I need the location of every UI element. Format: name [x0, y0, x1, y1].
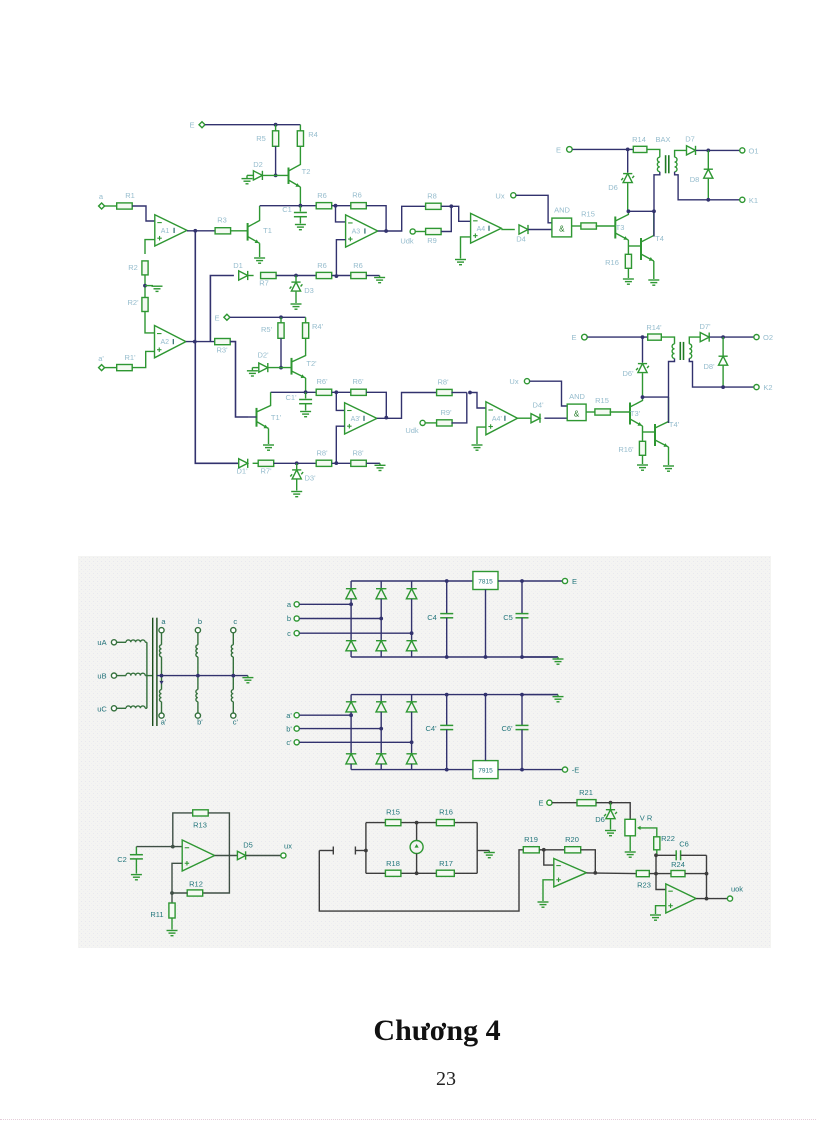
resistor R14' [648, 334, 662, 340]
resistor R6 (c) [316, 272, 332, 278]
svg-text:&: & [559, 225, 565, 234]
op-amp A7 [666, 884, 696, 913]
rectifier diode column 2 ' (top) [380, 695, 382, 702]
wire R9 up to R8 node [441, 206, 451, 231]
resistor R3' [215, 339, 231, 345]
rectifier diode column 1 (top) [350, 581, 352, 588]
wire R15 to T3 base [596, 225, 616, 227]
zener diode D3 [295, 276, 297, 282]
resistor R7' [258, 460, 274, 466]
terminal E' (channel 2) [224, 314, 230, 320]
wire R4' to T2' collector [305, 338, 307, 345]
secondary winding a lower coil [161, 676, 163, 690]
rectifier diode column 2 ' (bottom) [376, 754, 386, 764]
ground at T1' emitter [263, 445, 274, 450]
ground at divider tap [145, 285, 153, 287]
ground at T4' emitter [663, 466, 674, 471]
transistor T3 [614, 217, 616, 239]
resistor R16 [627, 246, 629, 254]
svg-text:D4: D4 [516, 235, 526, 244]
rectifier bridge ' bottom rail [351, 769, 473, 771]
op-amp A3' [345, 403, 377, 434]
svg-text:C1': C1' [285, 393, 297, 402]
svg-text:R9: R9 [427, 236, 437, 245]
terminal K1 [740, 197, 745, 202]
svg-text:E: E [571, 333, 576, 342]
svg-text:A4: A4 [477, 226, 486, 233]
wire R9' up to node [451, 393, 466, 423]
node D8' bottom [721, 385, 725, 389]
resistor R6 (d) [351, 272, 367, 278]
ground at C1 [295, 225, 306, 230]
svg-text:7915: 7915 [478, 768, 493, 775]
wire 7815 output to E [498, 580, 562, 582]
secondary winding a terminal bottom [159, 713, 164, 718]
svg-text:R13: R13 [193, 821, 207, 830]
wire AND to R15 [572, 225, 582, 227]
svg-text:b': b' [197, 718, 203, 727]
terminal ux [281, 853, 286, 858]
op-amp A1 [155, 215, 187, 246]
rectifier diode column 3 (top) [411, 581, 413, 588]
node D8 bottom [706, 198, 710, 202]
svg-text:b': b' [286, 724, 292, 733]
wire A4 non-inverting to ground [461, 237, 471, 259]
resistor R3 [215, 228, 231, 234]
wire R6'a [332, 391, 351, 393]
AND gate (channel 1) [552, 218, 572, 237]
svg-text:C6': C6' [501, 724, 513, 733]
svg-text:&: & [574, 410, 580, 419]
node A3' output [384, 416, 388, 420]
svg-text:C6: C6 [679, 840, 689, 849]
ground at R16' [637, 465, 648, 470]
svg-text:R6: R6 [352, 191, 362, 200]
wire D4 to AND box [528, 229, 552, 231]
resistor R9 [415, 231, 426, 233]
node T2' emitter / C1' [304, 390, 308, 394]
dotted footer rule [0, 1119, 816, 1120]
resistor R12 loop [187, 890, 203, 896]
wire D6 node to transformer primary [628, 210, 654, 212]
svg-text:D1': D1' [236, 467, 248, 476]
diode D1' [239, 459, 248, 468]
ground at offset zener [605, 831, 616, 836]
svg-text:R14': R14' [646, 323, 662, 332]
wire R3 to T1 base [231, 230, 248, 232]
svg-text:R6: R6 [317, 191, 327, 200]
svg-text:T4: T4 [655, 234, 664, 243]
capacitor C6' [521, 695, 523, 726]
svg-text:D5: D5 [243, 841, 253, 850]
secondary winding c lower coil [232, 676, 234, 690]
wire R6d to ground [366, 275, 379, 277]
svg-text:R8': R8' [316, 449, 328, 458]
ground at C2 [131, 875, 142, 880]
wire A2 output to R3' [186, 341, 215, 343]
svg-text:A3: A3 [352, 229, 361, 236]
secondary winding c terminal bottom [231, 713, 236, 718]
node A3 output [384, 229, 388, 233]
svg-text:D3: D3 [304, 286, 314, 295]
feedback loop R13 [173, 813, 193, 847]
secondary winding c upper coil [232, 633, 234, 645]
svg-text:R6: R6 [317, 261, 327, 270]
node rail/R5' [279, 315, 283, 319]
svg-text:O2: O2 [763, 333, 773, 342]
wire R21 to VR [596, 803, 630, 820]
node A1 output [193, 229, 197, 233]
capacitor C6 [656, 854, 676, 856]
svg-text:R2: R2 [128, 263, 138, 272]
transistor T1 [247, 223, 249, 241]
wire A1 non-inverting input to R2 [145, 240, 155, 254]
pulse transformer BAX primary lead [647, 149, 660, 157]
wire 7815 ground pin [485, 590, 487, 658]
node D8' top [721, 335, 725, 339]
diode D1 [239, 271, 248, 280]
secondary winding b upper coil [197, 633, 199, 645]
svg-text:-E: -E [572, 766, 580, 775]
wire A3 non-inverting input to bottom rail [336, 240, 345, 276]
svg-text:E: E [538, 799, 543, 808]
terminal Ux [511, 193, 516, 198]
wire D7' to O2 [710, 336, 754, 338]
op-amp A5 (ux amplifier) [182, 840, 214, 871]
terminal E (supply +) [562, 578, 567, 583]
svg-text:C2: C2 [117, 855, 127, 864]
node R8'/R9' [468, 391, 472, 395]
bridge input terminal a [294, 602, 299, 607]
node A3' non-inverting feed [334, 461, 338, 465]
resistor R8' (d) [351, 460, 367, 466]
rectifier bridge bottom rail [351, 656, 558, 658]
svg-text:D1: D1 [233, 261, 243, 270]
VR wiper to R22 [639, 828, 657, 837]
resistor R5 [275, 125, 277, 131]
node R2/R2prime divider tap [144, 275, 146, 298]
svg-text:b: b [198, 617, 202, 626]
terminal a [99, 203, 105, 209]
node bridge bottom centre [415, 871, 419, 875]
secondary winding b terminal top [195, 628, 200, 633]
svg-text:AND: AND [569, 392, 585, 401]
svg-text:R8': R8' [352, 449, 364, 458]
resistor R2' [142, 298, 148, 312]
transistor T4' [654, 424, 656, 446]
wire R19 to A6 inverting input [539, 849, 544, 851]
terminal E (channel 1 top rail) [199, 122, 205, 128]
wire AND' to R15' [586, 411, 596, 413]
ground at D2 anode [246, 175, 248, 178]
svg-text:R6': R6' [352, 377, 364, 386]
node R22/C6 [654, 853, 658, 857]
svg-text:R1: R1 [125, 191, 135, 200]
ground at R16 [623, 279, 634, 284]
zener diode D6 (offset) [610, 803, 612, 809]
diode D4' [518, 417, 532, 419]
wire E top rail [205, 124, 300, 126]
svg-text:R6: R6 [353, 261, 363, 270]
svg-text:Udk: Udk [405, 426, 419, 435]
svg-text:R18: R18 [386, 859, 400, 868]
node D2'/R5'/T2' base [279, 366, 283, 370]
resistor R6' (a) [316, 389, 332, 395]
wire A3 inverting input [336, 206, 346, 222]
wire input b [299, 618, 381, 620]
primary coil uC [117, 707, 126, 709]
wire D6' node to transformer primary [643, 396, 669, 398]
wire A6 output to R23 [587, 872, 637, 875]
svg-text:E: E [189, 121, 194, 130]
resistor R9' [425, 422, 437, 424]
svg-text:uA: uA [97, 638, 106, 647]
svg-text:T2': T2' [306, 359, 317, 368]
svg-text:R19: R19 [524, 835, 538, 844]
wire Ux' to AND gate [530, 381, 568, 406]
wire E' to R14' [587, 336, 647, 338]
svg-text:7815: 7815 [478, 579, 493, 586]
terminal uok [727, 896, 732, 901]
diode D7' [700, 333, 709, 342]
rectifier diode column 1 ' (bottom) [346, 754, 356, 764]
svg-text:E: E [214, 313, 219, 322]
transistor T4 [640, 238, 642, 260]
svg-text:uok: uok [731, 885, 743, 894]
wire Ux to AND gate [516, 195, 552, 223]
resistor R14 [633, 146, 647, 152]
op-amp A3 [346, 215, 378, 247]
centre-tap neutral wire [157, 675, 248, 677]
transistor T1' [256, 408, 258, 427]
wire A1 out to R3 [187, 230, 216, 232]
svg-text:Ux: Ux [495, 191, 504, 200]
resistor R1' [105, 367, 117, 369]
resistor R22 [654, 837, 660, 850]
resistor R15 (bridge) [385, 820, 401, 826]
wire node to A4 inverting input [451, 206, 470, 221]
wire R8' to node [451, 392, 466, 394]
node T2 emitter / C1 [299, 204, 303, 208]
rectifier diode column 3 (bottom) [406, 641, 416, 651]
terminal uB [111, 673, 116, 678]
wire R1 to A1 inverting input [132, 206, 155, 221]
resistor R23 [636, 871, 649, 877]
svg-text:R3': R3' [216, 346, 228, 355]
shaded background of power-supply block [78, 556, 771, 948]
svg-text:C1: C1 [282, 205, 292, 214]
ground lower bridge positive rail [522, 694, 558, 696]
terminal E (driver channel 1) [567, 147, 573, 153]
resistor R2 [142, 261, 148, 275]
bridge input terminal b [294, 616, 299, 621]
ground at T1 emitter [254, 258, 265, 263]
ground at A6 non-inverting input [543, 880, 554, 901]
svg-text:D3': D3' [304, 474, 316, 483]
wire R7' to D3' node [274, 462, 317, 464]
ground at A7 non-inverting input [656, 906, 666, 914]
transistor T2' [268, 367, 292, 369]
svg-text:D6': D6' [622, 369, 634, 378]
node D2/R5/T2 base [274, 174, 278, 178]
resistor R17 (bridge) [436, 870, 454, 876]
svg-text:R15: R15 [595, 396, 609, 405]
resistor R8 [426, 203, 442, 209]
secondary winding a upper coil [161, 633, 163, 645]
svg-text:R11: R11 [150, 910, 163, 919]
svg-text:c: c [233, 617, 237, 626]
ground channel1 bottom rail [374, 278, 385, 283]
node secondary a centre tap [160, 674, 164, 678]
primary coil uA [117, 641, 126, 643]
secondary winding c terminal top [231, 628, 236, 633]
capacitor C1 [299, 206, 301, 212]
wire R6'b to A3' output corner [366, 392, 386, 417]
ground at bridge right rail [477, 850, 489, 852]
terminal K2 [754, 385, 759, 390]
svg-text:E: E [556, 145, 561, 154]
svg-text:R7: R7 [259, 279, 269, 288]
regulator 7915 [473, 761, 498, 779]
wire A4' non-inverting to ground [477, 427, 486, 444]
ground at D2' anode [251, 368, 253, 371]
node D3' [295, 461, 299, 465]
wire C2 to inverting input [136, 846, 182, 848]
resistor R11 [171, 893, 173, 903]
svg-text:a': a' [98, 354, 104, 363]
wire A3' inverting input [336, 392, 344, 410]
node T3' collector / D6' [641, 395, 645, 399]
svg-text:T2: T2 [302, 167, 311, 176]
secondary top lead to D7' [689, 337, 700, 344]
resistor R8' [437, 389, 453, 395]
rectifier diode column 2 (top) [380, 581, 382, 588]
secondary top lead to D7 [675, 150, 687, 157]
rectifier diode column 2 (bottom) [376, 641, 386, 651]
wire input b' [299, 728, 381, 730]
op-amp A6 [554, 859, 587, 887]
svg-text:K2: K2 [763, 383, 772, 392]
svg-text:R16: R16 [605, 258, 619, 267]
diode D5 at A5 output [215, 855, 237, 857]
svg-text:R8: R8 [427, 192, 437, 201]
svg-text:D4': D4' [532, 401, 544, 410]
svg-text:K1: K1 [749, 196, 758, 205]
svg-text:C5: C5 [503, 613, 513, 622]
terminal Udk' [420, 420, 425, 425]
svg-text:T1: T1 [263, 226, 272, 235]
node R8/R9 junction [449, 204, 453, 208]
wire D1' to R7' [253, 462, 259, 464]
svg-text:O1: O1 [748, 146, 758, 155]
resistor R6' (b) [351, 389, 367, 395]
svg-text:c: c [287, 629, 291, 638]
diode D2 [247, 174, 253, 176]
transistor T3' [629, 403, 631, 425]
svg-text:R3: R3 [217, 216, 227, 225]
svg-text:R5: R5 [256, 134, 266, 143]
svg-text:R16: R16 [439, 808, 453, 817]
svg-text:R12: R12 [189, 880, 203, 889]
wire A3 output to R8 row [378, 206, 427, 231]
svg-text:D7: D7 [685, 135, 695, 144]
svg-text:A3': A3' [351, 416, 361, 423]
bridge input terminal c [294, 631, 299, 636]
secondary winding a terminal top [159, 628, 164, 633]
resistor R6 (b) [351, 203, 367, 209]
ground at D3' [291, 492, 302, 497]
pulse transformer primary lead (channel 2) [662, 337, 675, 344]
wire R15' to T3' base [610, 411, 630, 413]
wire to A7 inverting input [656, 874, 666, 890]
node D8 top [706, 149, 710, 153]
terminal E' (driver channel 2) [582, 334, 588, 340]
resistor R21 [577, 800, 596, 806]
resistor R15' [595, 409, 611, 415]
svg-text:R6': R6' [316, 377, 328, 386]
wire 7915 output to -E [498, 769, 562, 771]
svg-text:a': a' [161, 718, 167, 727]
terminal uC [111, 706, 116, 711]
resistor R19 [523, 847, 539, 853]
capacitor C4 [446, 581, 448, 614]
svg-text:R4: R4 [308, 130, 318, 139]
wire input a' [299, 714, 351, 716]
svg-text:T3: T3 [616, 223, 625, 232]
svg-text:A2: A2 [161, 339, 170, 346]
resistor R5' [280, 317, 282, 323]
rectifier diode column 3 ' (top) [411, 695, 413, 702]
ground at A4 [455, 260, 466, 265]
primary coil uB [117, 675, 126, 677]
bridge input terminal a' [294, 713, 299, 718]
wire E to R14 [572, 148, 633, 150]
primary bus wire [146, 642, 148, 708]
capacitor C4' [446, 695, 448, 726]
AND gate (channel 2) [567, 404, 586, 421]
terminal O1 [740, 148, 745, 153]
wire R6a to node [332, 205, 351, 207]
wire T3' emitter to T4' base [643, 431, 656, 433]
node A6 output [593, 871, 597, 875]
wire T3 emitter to T4 base [628, 245, 641, 247]
zener diode D3' [296, 463, 298, 469]
svg-text:C4': C4' [425, 724, 437, 733]
wire R2' to A2 inverting input [145, 312, 155, 333]
resistor R16 (bridge) [436, 820, 454, 826]
ground at R11 [167, 931, 178, 936]
rectifier bridge ' top rail [351, 694, 558, 696]
svg-text:D2': D2' [257, 351, 269, 360]
svg-text:R17: R17 [439, 859, 453, 868]
svg-text:R15: R15 [386, 808, 400, 817]
svg-text:uB: uB [97, 672, 106, 681]
diode D8' [722, 337, 724, 355]
caption Chuong 4 [29, 1014, 816, 1048]
svg-text:R2': R2' [127, 298, 139, 307]
node D6' top [641, 335, 645, 339]
wire R1' to A2 non-inverting input [132, 351, 154, 367]
svg-text:R8': R8' [437, 378, 449, 387]
svg-text:R22: R22 [661, 834, 675, 843]
potentiometer VR [625, 819, 636, 836]
svg-text:BAX: BAX [655, 135, 670, 144]
wire input a [299, 603, 351, 605]
resistor R4' [305, 317, 307, 323]
diode D2' [252, 367, 258, 369]
terminal Ux' [524, 379, 529, 384]
resistor R7 [261, 272, 277, 278]
